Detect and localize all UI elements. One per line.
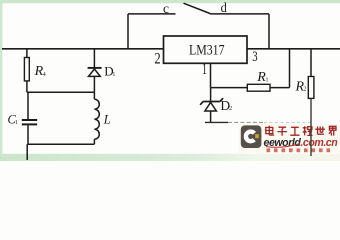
svg-text:4: 4 <box>43 72 46 78</box>
svg-text:L: L <box>103 112 111 126</box>
svg-text:d: d <box>221 1 227 16</box>
svg-text:1: 1 <box>112 72 115 78</box>
svg-text:1: 1 <box>202 61 207 78</box>
svg-text:c: c <box>163 2 169 17</box>
svg-text:2: 2 <box>154 51 160 68</box>
svg-text:1: 1 <box>15 120 18 126</box>
svg-text:2: 2 <box>229 106 232 112</box>
svg-text:2: 2 <box>303 87 306 93</box>
svg-text:LM317: LM317 <box>189 42 225 58</box>
svg-text:3: 3 <box>252 49 257 65</box>
svg-text:1: 1 <box>266 77 269 83</box>
